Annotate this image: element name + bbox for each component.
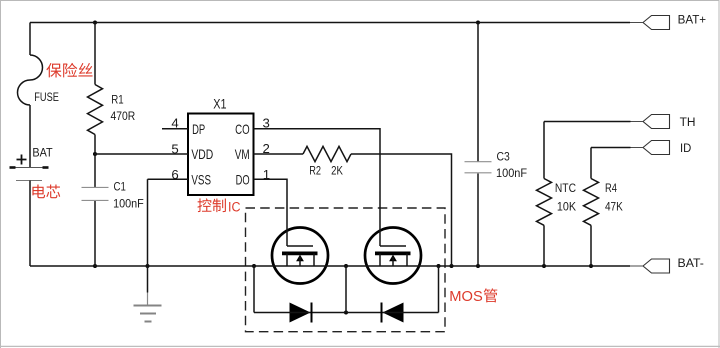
svg-text:TH: TH [680,115,696,129]
svg-text:NTC: NTC [555,181,577,195]
svg-text:1: 1 [263,167,270,182]
svg-text:DO: DO [236,171,250,187]
svg-text:100nF: 100nF [113,197,144,211]
svg-text:R1: R1 [111,93,123,107]
svg-text:CO: CO [235,121,250,137]
svg-text:VM: VM [235,146,250,162]
svg-text:2: 2 [263,141,270,156]
svg-text:X1: X1 [213,95,226,111]
svg-text:BAT+: BAT+ [678,13,707,27]
svg-text:R4: R4 [605,181,617,195]
svg-text:3: 3 [263,115,270,130]
svg-text:BAT: BAT [32,145,52,159]
svg-text:VSS: VSS [191,171,211,187]
svg-text:470R: 470R [111,109,136,123]
svg-text:C3: C3 [497,149,511,163]
svg-text:VDD: VDD [191,146,213,162]
svg-text:R2: R2 [309,163,321,177]
svg-text:IC: IC [228,200,241,215]
svg-text:2K: 2K [331,163,343,177]
svg-text:ID: ID [680,141,691,155]
svg-text:6: 6 [171,167,178,182]
svg-text:100nF: 100nF [496,166,527,180]
svg-text:4: 4 [171,115,178,130]
svg-text:FUSE: FUSE [34,90,59,104]
svg-text:MOS: MOS [449,288,483,305]
svg-text:C1: C1 [114,180,126,194]
svg-text:DP: DP [192,121,205,137]
svg-text:BAT-: BAT- [678,256,704,270]
svg-text:10K: 10K [557,199,576,213]
svg-text:5: 5 [171,142,178,157]
svg-text:47K: 47K [605,199,623,213]
